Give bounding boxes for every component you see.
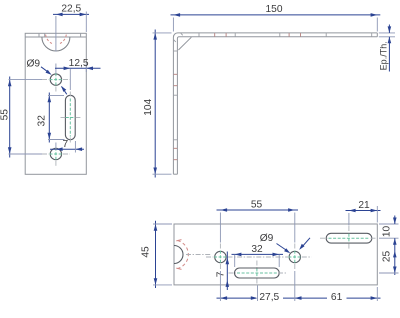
dimension Ep./Th. (thickness) <box>379 25 395 72</box>
slot S2 (top middle, horizontal obround) <box>235 268 280 278</box>
hole projection ticks on arm <box>199 33 372 37</box>
dimension 25 <box>379 251 399 273</box>
red bend-zone arc right (front) <box>60 35 66 44</box>
dimension 45 (top view) <box>153 221 172 288</box>
hole H4 (top right) <box>289 251 300 262</box>
Ø9 leader (top) <box>277 238 311 253</box>
dimension 150 <box>171 13 381 31</box>
hole H2 (front bottom) <box>50 148 61 159</box>
svg-text:150: 150 <box>266 4 283 15</box>
dimension 10 <box>379 216 399 276</box>
hole H4 center marks <box>288 251 301 264</box>
slot S1 (front, vertical obround) <box>65 95 75 139</box>
svg-text:7: 7 <box>62 139 68 150</box>
L profile outline <box>173 33 377 174</box>
slot S1 center marks <box>66 99 75 137</box>
front plate outline <box>25 33 86 174</box>
slot S1 centerline extensions <box>61 92 81 144</box>
svg-text:10: 10 <box>382 226 393 238</box>
hole H1 (front top) <box>50 74 61 85</box>
svg-text:12,5: 12,5 <box>69 58 89 69</box>
svg-text:32: 32 <box>251 244 263 255</box>
svg-text:7: 7 <box>215 271 226 277</box>
dimension 7 (front) <box>50 141 84 153</box>
slot S2 centerline extensions <box>229 261 288 285</box>
svg-text:45: 45 <box>141 246 152 258</box>
dimension 22,5 <box>53 12 89 33</box>
svg-text:55: 55 <box>0 109 10 121</box>
hole H1 centerline extensions <box>42 80 70 92</box>
slot S3 center marks <box>329 234 370 243</box>
svg-text:25: 25 <box>382 251 393 263</box>
hole H2 centerline extensions <box>42 154 70 167</box>
svg-text:Ø9: Ø9 <box>27 59 41 70</box>
rib semicircle (front) <box>42 37 70 51</box>
svg-text:27,5: 27,5 <box>259 292 279 303</box>
notch centerline (front) <box>55 16 57 52</box>
red bend-zone arc (top) <box>178 241 189 269</box>
svg-text:104: 104 <box>143 98 154 115</box>
dimension 27,5 <box>217 271 258 301</box>
hole H2 center marks <box>50 148 63 161</box>
dimension 32 (front) <box>48 93 65 143</box>
svg-text:21: 21 <box>358 200 370 211</box>
red hole ticks on leg <box>174 74 178 159</box>
hole H3 (top left) <box>215 251 226 262</box>
hole H3 center marks <box>214 251 227 264</box>
bend ticks on front top strip <box>39 33 81 37</box>
dimension 32 (top view) <box>232 253 284 267</box>
slot S2 center marks <box>237 269 277 278</box>
svg-text:Ø9: Ø9 <box>260 233 274 244</box>
Ø9 leader (front) <box>41 67 67 95</box>
dimension 55 (top view) <box>217 208 299 242</box>
bend ticks at corner <box>174 33 183 42</box>
dimension 12,5 <box>55 64 101 90</box>
red bend-zone end ticks (top) <box>176 240 181 270</box>
svg-text:61: 61 <box>331 292 343 303</box>
svg-text:22,5: 22,5 <box>61 4 81 15</box>
dimension 61 <box>283 271 381 301</box>
top plate outline <box>174 224 377 285</box>
rib centerline (top) <box>186 254 211 256</box>
holes H3-H4 centerline <box>206 244 312 271</box>
hole H1 center marks <box>50 73 63 86</box>
hole projection ticks on leg <box>174 51 178 140</box>
slot S3 (top right, horizontal obround) <box>326 233 372 243</box>
red hole ticks on arm <box>215 33 301 37</box>
svg-text:32: 32 <box>37 115 48 127</box>
dimension 104 <box>153 30 172 178</box>
red bend-zone arc left (front) <box>46 35 52 44</box>
rib semicircle (top) <box>174 246 183 264</box>
svg-text:Ep./Th.: Ep./Th. <box>379 41 389 70</box>
svg-text:55: 55 <box>251 200 263 211</box>
dimension 55 (front) <box>8 77 42 158</box>
dimension 21 <box>346 206 381 226</box>
dimension 7 (top view) <box>226 252 230 291</box>
slot S3 centerline extensions <box>320 226 377 250</box>
rib diagonal (profile) <box>178 37 191 50</box>
